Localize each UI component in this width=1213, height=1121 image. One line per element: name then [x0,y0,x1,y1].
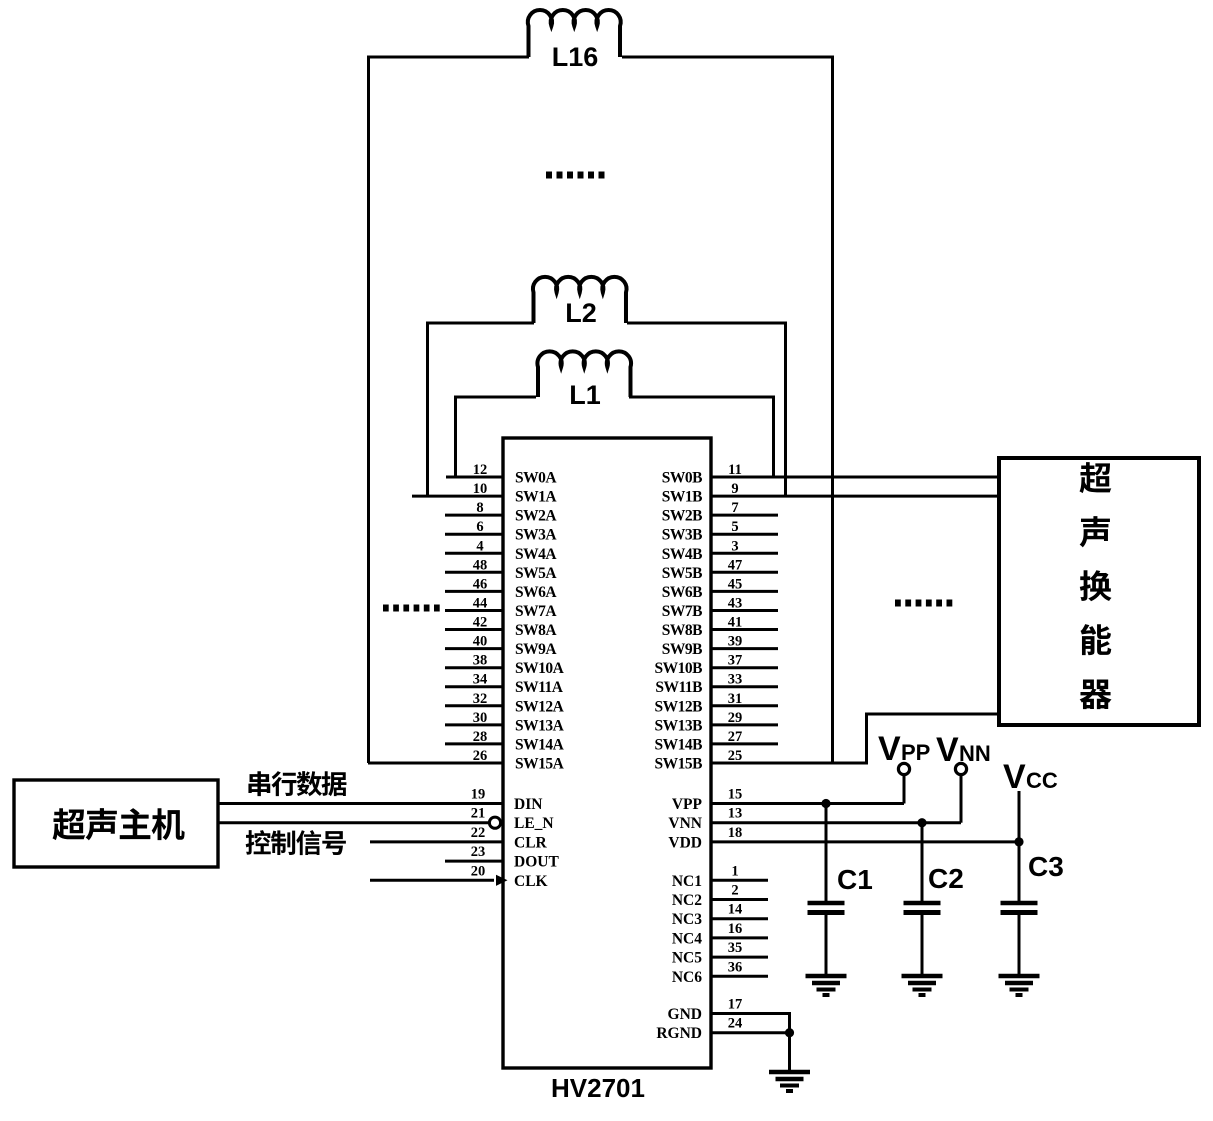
svg-text:32: 32 [473,691,488,707]
pin label SW14A [515,736,565,753]
wire pin lead SW2A [445,514,503,517]
pin number 29 [728,710,743,726]
pin number 21 [471,806,486,822]
wire pin lead SW8B [711,628,778,631]
svg-text:SW14A: SW14A [515,736,565,753]
wire pin lead SW9A [445,647,503,650]
svg-text:SW12B: SW12B [655,698,703,715]
wire pin lead SW2B [711,514,778,517]
svg-text:SW15A: SW15A [515,756,565,773]
svg-text:SW7A: SW7A [515,603,557,620]
svg-text:NC2: NC2 [672,892,702,909]
svg-text:37: 37 [728,653,743,669]
pin label NC5 [672,950,702,967]
svg-text:CLR: CLR [514,834,548,851]
pin label SW10A [515,660,565,677]
svg-text:SW6B: SW6B [662,584,702,601]
wire pin lead NC4 [711,936,768,939]
svg-text:SW14B: SW14B [655,736,703,753]
pin number 44 [473,596,488,612]
svg-text:SW1A: SW1A [515,489,557,506]
svg-text:SW3B: SW3B [662,527,702,544]
wire GND to ground drop [788,1014,791,1071]
pin number 4 [476,538,483,554]
wire pin lead SW9B [711,647,778,650]
wire pin lead SW7B [711,609,778,612]
pin number 25 [728,748,743,764]
svg-text:SW13A: SW13A [515,717,565,734]
capacitor C2 [904,823,941,974]
inductor L2 [533,277,627,323]
pin label SW7B [662,603,702,620]
svg-text:30: 30 [473,710,488,726]
junction dot VPP/C1 [821,799,830,808]
ground symbol under C1 [806,976,847,995]
svg-text:11: 11 [728,462,742,478]
wire pin lead NC2 [711,898,768,901]
pin label SW4A [515,546,557,563]
pin number 18 [728,825,743,841]
svg-text:SW2B: SW2B [662,508,702,525]
pin number 6 [476,519,483,535]
wire pin lead SW13B [711,723,778,726]
wire L2 right lead [627,322,787,325]
pin number 45 [728,576,743,592]
svg-text:CC: CC [1026,768,1058,793]
svg-text:DOUT: DOUT [514,854,559,871]
svg-text:19: 19 [471,787,486,803]
wire pin lead SW0B [711,476,999,479]
pin label SW3A [515,527,557,544]
svg-text:9: 9 [731,481,738,497]
junction dot GND/RGND [785,1028,794,1037]
svg-text:SW4A: SW4A [515,546,557,563]
wire pin lead SW4A [445,552,503,555]
svg-text:24: 24 [728,1016,743,1032]
svg-text:SW9A: SW9A [515,641,557,658]
wire DIN from host [218,802,503,805]
wire pin lead SW11A [445,685,503,688]
wire SW15B to transducer box [865,713,999,716]
block ultrasound host box [14,780,218,867]
svg-text:27: 27 [728,729,743,745]
pin number 8 [476,500,483,516]
wire pin lead SW1B [711,495,999,498]
capacitor C1 [808,804,845,975]
label C2 [928,863,964,894]
wire VNN terminal riser [960,775,963,823]
wire L16 left lead [367,56,529,59]
ground symbol (RGND) [769,1072,810,1091]
pin label GND [668,1006,702,1023]
wire CLK [370,879,494,882]
svg-text:23: 23 [471,844,486,860]
svg-text:SW12A: SW12A [515,698,565,715]
pin number 19 [471,787,486,803]
svg-text:31: 31 [728,691,743,707]
svg-text:SW10B: SW10B [655,660,703,677]
svg-text:40: 40 [473,634,488,650]
pin label RGND [656,1025,702,1042]
pin label SW9A [515,641,557,658]
wire pin lead SW3B [711,533,778,536]
pin label SW1A [515,489,557,506]
wire CLR [370,840,503,843]
svg-text:42: 42 [473,615,488,631]
svg-text:SW10A: SW10A [515,660,565,677]
svg-text:10: 10 [473,481,488,497]
pin number 41 [728,615,743,631]
wire L2 left vertical to SW1A net [426,323,429,496]
svg-text:14: 14 [728,902,743,918]
ground symbol under C2 [902,976,943,995]
pin label SW3B [662,527,702,544]
pin label SW0B [662,470,702,487]
terminal VNN open circle [955,763,966,774]
pin number 9 [731,481,738,497]
inductor L1 [537,351,631,397]
pin number 43 [728,596,743,612]
svg-text:CLK: CLK [514,873,548,890]
wire VDD net [711,840,1019,843]
svg-text:15: 15 [728,787,743,803]
pin number 30 [473,710,488,726]
pin label DIN [514,796,542,813]
pin number 34 [473,672,488,688]
wire VPP terminal riser [903,775,906,804]
wire L1 left vertical to SW0A net [454,397,457,477]
svg-text:18: 18 [728,825,743,841]
block ultrasonic transducer box [999,458,1199,725]
wire L2 right vertical to SW1B net [784,323,787,496]
terminal VPP open circle [898,763,909,774]
label L16 [552,42,599,72]
pin label DOUT [514,854,559,871]
svg-text:5: 5 [731,519,738,535]
op IC U1 HV2701 body [503,438,711,1068]
wire L16 right lead [622,56,834,59]
pin label CLK [514,873,548,890]
pin number 17 [728,997,743,1013]
svg-text:2: 2 [731,883,738,899]
pin label SW10B [655,660,703,677]
pin label SW6B [662,584,702,601]
svg-text:SW3A: SW3A [515,527,557,544]
pin number 26 [473,748,488,764]
pin label SW6A [515,584,557,601]
pin number 46 [473,576,488,592]
wire pin lead SW15A [368,762,503,765]
pin label SW13A [515,717,565,734]
capacitor C3 [1001,842,1038,974]
wire pin lead SW10A [445,666,503,669]
pin label SW8A [515,622,557,639]
pin label NC1 [672,873,702,890]
pin number 36 [728,959,743,975]
wire pin lead SW12A [445,704,503,707]
pin number 11 [728,462,742,478]
pin label SW12B [655,698,703,715]
pin number 10 [473,481,488,497]
svg-text:SW9B: SW9B [662,641,702,658]
pin number 14 [728,902,743,918]
wire pin lead SW0A [446,476,503,479]
pin label SW8B [662,622,702,639]
svg-text:V: V [878,730,901,768]
svg-text:SW0A: SW0A [515,470,557,487]
net label serial data (Chinese) [248,771,346,796]
pin number 32 [473,691,488,707]
pin label SW1B [662,489,702,506]
pin number 16 [728,921,743,937]
svg-text:38: 38 [473,653,488,669]
label L1 [569,380,601,410]
label ultrasonic transducer (Chinese, vertical) [1080,462,1112,709]
svg-text:C3: C3 [1028,851,1064,882]
wire pin lead SW10B [711,666,778,669]
pin number 39 [728,634,743,650]
svg-text:L16: L16 [552,42,599,72]
pin number 3 [731,538,738,554]
pin number 38 [473,653,488,669]
wire pin lead SW3A [445,533,503,536]
svg-text:44: 44 [473,596,488,612]
svg-text:35: 35 [728,940,743,956]
svg-text:V: V [936,731,959,769]
svg-text:NC6: NC6 [672,969,702,986]
pin number 1 [731,863,738,879]
svg-text:20: 20 [471,863,486,879]
pin number 42 [473,615,488,631]
svg-text:VDD: VDD [668,834,702,851]
svg-text:25: 25 [728,748,743,764]
pin number 28 [473,729,488,745]
svg-text:VNN: VNN [668,815,702,832]
svg-text:34: 34 [473,672,488,688]
pin number 13 [728,806,743,822]
label L2 [565,298,597,328]
pin number 37 [728,653,743,669]
pin label LE_N [514,815,554,832]
svg-text:SW4B: SW4B [662,546,702,563]
svg-text:48: 48 [473,557,488,573]
pin number 33 [728,672,743,688]
wire GND pin lead [711,1012,791,1015]
wire pin lead SW5A [445,571,503,574]
pin label SW4B [662,546,702,563]
svg-text:NC3: NC3 [672,911,702,928]
svg-text:47: 47 [728,557,743,573]
clock arrow on CLK pin [496,875,508,886]
pin label SW15B [655,756,703,773]
wire pin lead NC3 [711,917,768,920]
svg-text:4: 4 [476,538,483,554]
pin label SW7A [515,603,557,620]
wire L1 right lead [629,396,775,399]
svg-text:SW11B: SW11B [655,679,702,696]
svg-text:SW0B: SW0B [662,470,702,487]
net label VNN [936,731,991,769]
pin number 40 [473,634,488,650]
pin label SW9B [662,641,702,658]
svg-text:SW5B: SW5B [662,565,702,582]
wire pin lead NC5 [711,956,768,959]
wire pin lead NC1 [711,879,768,882]
pin number 27 [728,729,743,745]
svg-text:SW2A: SW2A [515,508,557,525]
pin label SW5A [515,565,557,582]
pin label NC3 [672,911,702,928]
svg-text:SW8A: SW8A [515,622,557,639]
svg-text:21: 21 [471,806,486,822]
svg-text:28: 28 [473,729,488,745]
svg-text:NC1: NC1 [672,873,702,890]
wire pin lead SW15B [711,762,868,765]
svg-text:33: 33 [728,672,743,688]
wire pin lead SW8A [445,628,503,631]
wire VPP net [711,802,904,805]
pin number 2 [731,883,738,899]
wire pin lead SW6A [445,590,503,593]
svg-text:26: 26 [473,748,488,764]
svg-text:C2: C2 [928,863,964,894]
svg-text:NC4: NC4 [672,930,702,947]
pin label SW11A [515,679,564,696]
wire pin lead SW14B [711,742,778,745]
net label VPP [878,730,930,768]
pin label SW11B [655,679,702,696]
wire L2 left lead [426,322,534,325]
pin label NC4 [672,930,702,947]
pin label NC6 [672,969,702,986]
pin number 47 [728,557,743,573]
svg-text:SW1B: SW1B [662,489,702,506]
wire pin lead SW1A [412,495,503,498]
svg-text:45: 45 [728,576,743,592]
wire pin lead SW5B [711,571,778,574]
pin label VNN [668,815,702,832]
svg-text:NC5: NC5 [672,950,702,967]
svg-text:SW11A: SW11A [515,679,564,696]
wire L16 left vertical to SW15A net [367,57,370,763]
svg-text:29: 29 [728,710,743,726]
wire pin lead SW6B [711,590,778,593]
wire pin lead SW4B [711,552,778,555]
wire pin lead SW13A [445,723,503,726]
wire VNN net [711,821,961,824]
pin number 24 [728,1016,743,1032]
pin label SW12A [515,698,565,715]
svg-text:SW15B: SW15B [655,756,703,773]
pin label VDD [668,834,702,851]
wire SW15B vertical riser [865,714,868,763]
pin number 12 [473,462,488,478]
svg-text:22: 22 [471,825,486,841]
svg-text:36: 36 [728,959,743,975]
svg-text:7: 7 [731,500,738,516]
svg-text:PP: PP [901,740,930,765]
svg-text:39: 39 [728,634,743,650]
svg-text:LE_N: LE_N [514,815,554,832]
svg-text:43: 43 [728,596,743,612]
wire L1 right vertical to SW0B net [772,397,775,477]
svg-text:GND: GND [668,1006,702,1023]
svg-text:SW6A: SW6A [515,584,557,601]
wire pin lead SW11B [711,685,778,688]
svg-text:16: 16 [728,921,743,937]
pin number 48 [473,557,488,573]
pin number 7 [731,500,738,516]
label ultrasound host (Chinese) [53,808,185,840]
pin label SW5B [662,565,702,582]
svg-text:12: 12 [473,462,488,478]
pin label SW14B [655,736,703,753]
ellipsis dots between L16 and L2 [546,172,606,179]
svg-text:L1: L1 [569,380,601,410]
label HV2701 [551,1073,645,1103]
wire L1 left lead [454,396,536,399]
inductor L16 [528,10,621,57]
svg-text:SW8B: SW8B [662,622,702,639]
svg-text:41: 41 [728,615,743,631]
svg-text:1: 1 [731,863,738,879]
net label VCC [1003,758,1058,796]
pin label SW13B [655,717,703,734]
ground symbol under C3 [999,976,1040,995]
pin label CLR [514,834,548,851]
pin number 5 [731,519,738,535]
wire pin lead SW7A [445,609,503,612]
wire VCC drop to VDD net [1018,791,1021,842]
wire RGND pin lead [711,1031,791,1034]
pin label SW15A [515,756,565,773]
pin number 31 [728,691,743,707]
pin number 20 [471,863,486,879]
junction dot VNN/C2 [917,818,926,827]
wire pin lead NC6 [711,975,768,978]
net label control signal (Chinese) [246,830,346,855]
svg-text:V: V [1003,758,1026,796]
svg-text:8: 8 [476,500,483,516]
svg-text:6: 6 [476,519,483,535]
wire LE_N from host [218,821,489,824]
svg-text:13: 13 [728,806,743,822]
svg-text:SW7B: SW7B [662,603,702,620]
svg-text:DIN: DIN [514,796,542,813]
pin label SW2B [662,508,702,525]
wire L16 right vertical to SW15B net [831,57,834,763]
pin label VPP [672,796,703,813]
pin label SW2A [515,508,557,525]
wire pin lead SW12B [711,704,778,707]
svg-text:C1: C1 [837,864,873,895]
svg-text:3: 3 [731,538,738,554]
inverter bubble on LE_N pin [489,817,500,828]
wire DOUT [445,860,503,863]
svg-text:17: 17 [728,997,743,1013]
pin number 35 [728,940,743,956]
wire pin lead SW14A [445,742,503,745]
junction dot VDD/C3 [1014,837,1023,846]
svg-text:SW5A: SW5A [515,565,557,582]
pin label NC2 [672,892,702,909]
svg-text:HV2701: HV2701 [551,1073,645,1103]
svg-text:NN: NN [959,741,991,766]
svg-text:VPP: VPP [672,796,703,813]
svg-text:46: 46 [473,576,488,592]
svg-text:SW13B: SW13B [655,717,703,734]
svg-text:RGND: RGND [656,1025,702,1042]
